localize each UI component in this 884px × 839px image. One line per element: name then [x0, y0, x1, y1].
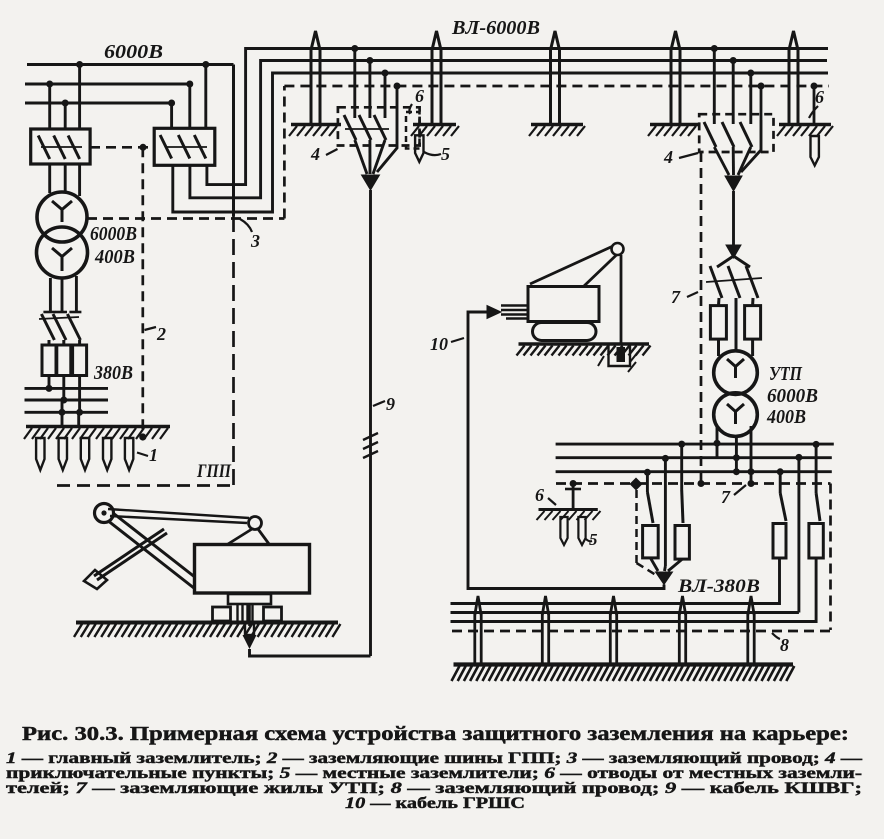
svg-text:6: 6 [535, 485, 544, 505]
machine drill rig tracks [533, 323, 597, 341]
svg-text:ВЛ-380В: ВЛ-380В [677, 576, 760, 597]
ground drill hole [598, 345, 638, 372]
pole VL380 #2 [542, 596, 548, 664]
label 380V [93, 362, 133, 384]
ground pole footing #1 [289, 125, 341, 137]
switch fuse group feeder A (to VL380) [643, 469, 659, 571]
svg-text:6000В: 6000В [90, 223, 137, 245]
svg-text:4: 4 [663, 147, 673, 167]
machine drill rig mast [530, 243, 624, 343]
transformer T2 UTP 6000/400V [714, 351, 758, 437]
wire dashed link Q1-Q2 [90, 144, 155, 151]
switch blades PP1 [344, 115, 389, 140]
label 8 leader [772, 633, 789, 655]
disconnector S1 [39, 312, 81, 340]
caption title [22, 724, 849, 745]
node UTP cable head [726, 245, 741, 258]
wire feeder C phase2 [451, 454, 803, 613]
wire T2 to bus [714, 426, 755, 487]
label GPP [196, 462, 231, 482]
wire feeder phase C Q2 to VL-6000V [173, 73, 828, 212]
wire 7 dashed UTP ground cores [698, 152, 705, 487]
ground pole footing #2 [411, 125, 459, 137]
label 10 leader [430, 334, 464, 354]
wire box Q1 to transformer T1 [50, 164, 80, 196]
cable 9 KShVG vertical run [363, 190, 378, 656]
svg-text:3: 3 [250, 231, 260, 251]
label 6000V bus [104, 41, 163, 63]
cable 9 bottom run to excavator [250, 649, 371, 656]
ground hatch under excavator [74, 623, 340, 638]
svg-text:6000В: 6000В [767, 385, 818, 407]
svg-text:4: 4 [310, 144, 320, 164]
wire 3 VL-6000V dashed ground wire [284, 85, 829, 88]
node cable 10 plug arrow [487, 306, 501, 319]
switch fuse group feeder B [668, 441, 689, 571]
label 7 leader upper [671, 287, 698, 307]
svg-text:1: 1 [149, 445, 158, 465]
wire local earth tap 6 right pole [811, 83, 818, 126]
caption legend line 1 [6, 750, 863, 767]
svg-text:400В: 400В [94, 246, 135, 268]
ground local earthing at bus [537, 510, 601, 546]
pole VL6000 #2 [432, 31, 441, 124]
ground local electrode right pole [811, 136, 819, 165]
caption legend line 2 [6, 765, 862, 782]
wire 3 dashed ground conductor GPP to VL [87, 86, 284, 219]
wire UTP middle phase [735, 298, 738, 352]
ground electrode under excavator [243, 604, 257, 649]
label VL-6000V [451, 17, 540, 39]
fuse UTP left [710, 298, 726, 356]
transformer T1 6000/400V [37, 192, 88, 278]
wire drops to connection point PP2 [711, 45, 765, 124]
label 6 leader right [809, 87, 824, 118]
wire local earth tap 6 PP1 dashed box [406, 112, 420, 149]
label UTP [769, 363, 803, 385]
switch fuse feeder C phase1 [451, 468, 787, 603]
wire 2 dashed GPP ground bus [139, 147, 146, 440]
wire drops to connection point PP1 [351, 45, 400, 120]
ground VL380 footing strip [452, 665, 795, 682]
label 4 leader PP2 [663, 147, 698, 167]
svg-text:400В: 400В [766, 406, 806, 428]
label 5 leader PP1 [424, 144, 450, 164]
connection point PP2 box dashed [699, 114, 773, 152]
label T1 6000V [90, 223, 137, 245]
pole VL6000 #3 [551, 31, 560, 124]
wire drops to breaker box Q2 [168, 61, 209, 129]
machine drill rig body [528, 287, 599, 322]
label UTP 400V [766, 406, 806, 428]
machine excavator arm bucket [84, 529, 167, 589]
pole VL6000 #5 [789, 31, 798, 124]
svg-text:2: 2 [156, 324, 166, 344]
label 6 leader bus [535, 485, 556, 505]
node ground diamond junction [630, 478, 643, 491]
pole VL6000 #1 [311, 31, 320, 124]
svg-text:6: 6 [815, 87, 824, 107]
svg-text:7: 7 [671, 287, 681, 307]
node cable head to drill feeder [656, 572, 673, 585]
wire diamond ground core dashed [637, 490, 657, 575]
caption legend line 3 [6, 780, 862, 797]
caption legend line 4 [345, 795, 525, 812]
ground pole footing #5 [777, 125, 833, 137]
svg-text:ВЛ-6000В: ВЛ-6000В [451, 17, 540, 39]
pole VL380 #5 [748, 596, 754, 664]
wire PP1 funnel to cable [355, 120, 397, 174]
label T1 400V [94, 246, 135, 268]
label 1 leader [137, 445, 158, 465]
label 9 leader [373, 394, 395, 414]
wire T1 to disconnector S1 [50, 276, 76, 313]
switch blades UTP input [706, 256, 762, 298]
wire GPP bottom boundary dashed [57, 484, 235, 487]
cable 10 GRShS run [468, 312, 664, 589]
wire GPP boundary right [232, 65, 235, 486]
wire feeder phase B Q2 to VL-6000V [190, 61, 827, 198]
svg-text:10 — кабель ГРШС: 10 — кабель ГРШС [345, 795, 525, 812]
wire feeder phase A Q2 to VL-6000V [207, 49, 828, 185]
svg-text:380В: 380В [93, 362, 133, 384]
switch blades PP2 [704, 122, 752, 147]
svg-text:Рис. 30.3. Примерная схема уст: Рис. 30.3. Примерная схема устройства за… [22, 724, 849, 745]
ground pole footing #4 [648, 125, 698, 137]
ground local electrode 5 at PP1 [415, 135, 423, 162]
ground pole footing #3 [529, 125, 585, 137]
label 6 leader PP1 [409, 86, 424, 114]
fuse group F1 [42, 340, 87, 376]
connection point PP1 box dashed [338, 107, 420, 145]
pole VL380 #4 [679, 596, 685, 664]
pole VL380 #3 [610, 596, 616, 664]
svg-text:6: 6 [415, 86, 424, 106]
svg-text:8: 8 [780, 635, 789, 655]
label 3 leader [240, 219, 260, 251]
fuse UTP right [745, 298, 761, 356]
node 380V busbars UTP [556, 444, 834, 472]
pole VL380 #1 [475, 596, 481, 664]
svg-text:9: 9 [386, 394, 395, 414]
svg-text:6000В: 6000В [104, 41, 163, 63]
label UTP 6000V [767, 385, 818, 407]
node PP1 cable head [362, 175, 380, 190]
machine excavator boom [95, 504, 206, 593]
wire bus to main earthing [59, 400, 79, 427]
ground main earthing device 1 [24, 427, 170, 471]
wire 8 dashed ground VL380 [452, 484, 831, 632]
wire drops to breaker box Q1 [46, 61, 83, 130]
machine excavator base cable bundle [228, 594, 271, 621]
svg-text:5: 5 [589, 530, 598, 549]
svg-text:5: 5 [441, 144, 450, 164]
breaker box Q2 [154, 128, 215, 165]
pole VL6000 #4 [671, 31, 680, 124]
breaker box Q1 [31, 129, 90, 164]
wire feeder mid [662, 455, 669, 571]
svg-text:10: 10 [430, 334, 448, 354]
label VL-380V [677, 576, 760, 597]
label 7 leader lower [721, 485, 746, 507]
ground hatch under drill rig [517, 344, 651, 356]
machine excavator cables [108, 509, 269, 544]
label 4 leader PP1 [310, 144, 338, 164]
svg-text:ГПП: ГПП [196, 462, 231, 482]
wire fuses to 380V bus [46, 376, 84, 416]
wire local earth tap 6 at bus [565, 480, 581, 510]
wire 380V ground bus dashed [556, 482, 831, 485]
label 2 leader [145, 324, 167, 344]
wire PP2 funnel [714, 120, 761, 175]
node 6000V busbars GPP [25, 65, 234, 104]
cable PP2 to UTP [732, 191, 735, 245]
switch fuse feeder C phase3 [451, 441, 824, 622]
label 5 leader bus [586, 530, 598, 549]
machine excavator track blocks [213, 607, 282, 621]
svg-text:7: 7 [721, 487, 731, 507]
node PP2 cable head [725, 176, 742, 191]
node 380V busbars GPP [25, 388, 109, 412]
machine excavator body [195, 545, 310, 594]
svg-text:УТП: УТП [769, 363, 803, 385]
machine drill rods [501, 306, 528, 319]
